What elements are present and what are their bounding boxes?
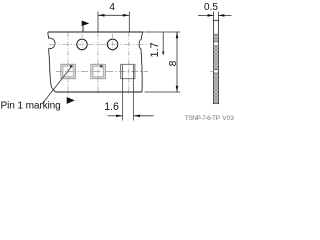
svg-text:TSNP-7-6-TP: TSNP-7-6-TP: [185, 115, 220, 122]
svg-text:8: 8: [168, 60, 179, 66]
svg-text:V03: V03: [222, 115, 234, 122]
svg-text:0.5: 0.5: [204, 2, 218, 13]
svg-text:4: 4: [109, 2, 115, 13]
svg-text:1.6: 1.6: [104, 101, 119, 113]
svg-text:1.7: 1.7: [149, 42, 161, 57]
svg-text:Pin 1 marking: Pin 1 marking: [1, 100, 61, 111]
